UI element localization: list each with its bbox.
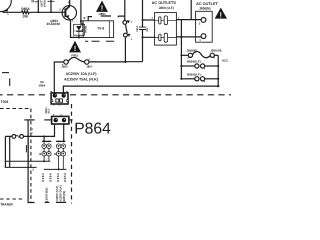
svg-text:J857: J857 bbox=[86, 65, 93, 69]
svg-text:10K: 10K bbox=[22, 14, 29, 18]
wire to top edge bbox=[190, 0, 192, 20]
fuse F851 bbox=[54, 54, 125, 93]
value label C857 100/16V (rotated) bbox=[41, 0, 47, 7]
transistor Q851 (partial, top-left corner) bbox=[0, 0, 11, 15]
svg-text:125V(N): 125V(N) bbox=[62, 191, 66, 202]
svg-text:AC OUTLETS: AC OUTLETS bbox=[152, 1, 177, 5]
svg-text:(160V)(N): (160V)(N) bbox=[45, 188, 49, 202]
svg-text:RY851: RY851 bbox=[85, 25, 88, 33]
wire J860 pin1 to J806 pin2 bbox=[176, 19, 201, 21]
resistor R854 bbox=[21, 7, 29, 18]
svg-text:J858 (N): J858 (N) bbox=[210, 48, 221, 52]
capacitor C856 (cut at top edge) bbox=[32, 0, 41, 13]
svg-text:J860 (U.F): J860 (U.F) bbox=[159, 6, 174, 10]
svg-text:AC2: AC2 bbox=[222, 59, 228, 63]
wire bbox=[29, 11, 64, 13]
interconnect J858 bbox=[181, 48, 221, 58]
diode D864b bbox=[47, 151, 52, 156]
svg-text:R854: R854 bbox=[21, 7, 29, 11]
svg-text:P864: P864 bbox=[74, 121, 111, 138]
svg-text:D854: D854 bbox=[63, 173, 67, 182]
wire J860 pin3 to J806 pin1 bbox=[176, 36, 201, 38]
thermal fuse B854 bbox=[181, 60, 218, 70]
connector J860 bbox=[152, 13, 180, 46]
svg-text:2: 2 bbox=[199, 22, 201, 26]
dashed line under relay bbox=[85, 40, 114, 42]
svg-text:C851: C851 bbox=[136, 25, 139, 31]
diode D854 bbox=[61, 144, 66, 149]
svg-text:J806(N): J806(N) bbox=[199, 6, 211, 10]
diode D864 bbox=[47, 144, 52, 149]
wire P864 pin2 to rectifier bbox=[63, 124, 65, 141]
svg-text:2: 2 bbox=[59, 8, 61, 12]
dashed isolation boundary bbox=[0, 94, 49, 96]
DC output bar bbox=[44, 168, 67, 170]
diode D863b bbox=[42, 151, 47, 156]
connector J806 bbox=[196, 11, 213, 42]
relay tab / contact stubs bbox=[84, 16, 111, 21]
transformer T001 primary bbox=[5, 136, 37, 171]
svg-text:2: 2 bbox=[74, 30, 76, 33]
diode D863 bbox=[42, 141, 47, 148]
svg-text:D853: D853 bbox=[56, 173, 60, 182]
vertical net N (left outlet return) bbox=[180, 20, 182, 79]
inline connector pair bbox=[12, 135, 24, 139]
svg-text:!: ! bbox=[74, 44, 77, 53]
diode D853 bbox=[56, 144, 61, 149]
wire P864 pin4 to transformer bbox=[5, 124, 54, 136]
svg-text:!: ! bbox=[220, 10, 223, 19]
svg-text:U851: U851 bbox=[99, 12, 107, 16]
svg-text:TRANSF.: TRANSF. bbox=[0, 202, 14, 206]
capacitor C857 (cut at top edge) bbox=[48, 0, 55, 13]
capacitor C851 bbox=[136, 0, 149, 62]
wire collector bus down bbox=[80, 0, 82, 24]
relay TV-8 bbox=[82, 21, 114, 38]
rectifier top bars bbox=[42, 140, 65, 142]
wire cap bottom to switch bbox=[125, 61, 142, 63]
svg-text:AC250V 10A (U.F): AC250V 10A (U.F) bbox=[65, 72, 97, 76]
svg-text:2: 2 bbox=[32, 168, 34, 172]
dashed board boundary (vertical) bbox=[71, 104, 73, 204]
svg-text:J856: J856 bbox=[61, 65, 68, 69]
diode D851 (boxed) bbox=[73, 24, 84, 35]
svg-text:1: 1 bbox=[131, 38, 133, 41]
wire emitter to node bbox=[71, 20, 84, 38]
dashed corner segment (left) bbox=[2, 72, 9, 74]
svg-text:J854: J854 bbox=[38, 83, 45, 87]
wire top-left node bbox=[3, 11, 22, 13]
svg-text:100/16V: 100/16V bbox=[43, 0, 46, 7]
wires diode bottoms bbox=[44, 156, 49, 161]
svg-text:D864: D864 bbox=[49, 173, 53, 182]
connector P864 block lead bbox=[44, 119, 51, 121]
warning triangle (right) bbox=[215, 8, 227, 20]
warning triangle U851 bbox=[96, 1, 108, 16]
svg-text:AC250V T5AL (N.K): AC250V T5AL (N.K) bbox=[64, 78, 99, 82]
wire rectifier AC feed (left group) bbox=[43, 136, 45, 141]
power switch S801 bbox=[118, 0, 133, 41]
svg-text:D863: D863 bbox=[41, 173, 45, 182]
wires to J860 bbox=[143, 20, 155, 37]
main return bus bbox=[63, 86, 218, 93]
wire crossing boundary (AC in) bbox=[24, 119, 34, 121]
svg-text:30.5: 30.5 bbox=[48, 108, 51, 113]
thermal fuse B853 bbox=[181, 72, 218, 82]
pin 1 tick bbox=[30, 132, 33, 134]
connector P864 block bbox=[52, 114, 69, 124]
svg-text:1: 1 bbox=[32, 128, 34, 131]
connector J854 (interlock block) bbox=[50, 91, 68, 105]
polarity x marks bbox=[39, 153, 55, 155]
warning triangle F851 bbox=[69, 41, 81, 53]
svg-text:103: 103 bbox=[146, 27, 149, 32]
svg-text:TV-8: TV-8 bbox=[97, 27, 104, 31]
wire diode bottom rail bbox=[5, 160, 51, 162]
boundary dashes bottom bbox=[45, 201, 66, 203]
transistor Q854 2SA1048 bbox=[47, 0, 77, 26]
svg-text:1: 1 bbox=[199, 38, 201, 42]
svg-text:B853(U.F): B853(U.F) bbox=[187, 72, 201, 76]
diode D854b bbox=[61, 151, 66, 156]
svg-text:AC OUTLET: AC OUTLET bbox=[196, 2, 218, 6]
wires between diode rows bbox=[44, 148, 63, 151]
svg-text:2SA1048: 2SA1048 bbox=[47, 22, 61, 26]
svg-text:2: 2 bbox=[131, 21, 133, 24]
svg-text:4: 4 bbox=[152, 17, 154, 20]
wire right return bbox=[217, 55, 219, 86]
diode D853b bbox=[56, 151, 61, 156]
svg-text:B854(U.F): B854(U.F) bbox=[187, 60, 201, 64]
svg-text:T001: T001 bbox=[0, 100, 8, 104]
